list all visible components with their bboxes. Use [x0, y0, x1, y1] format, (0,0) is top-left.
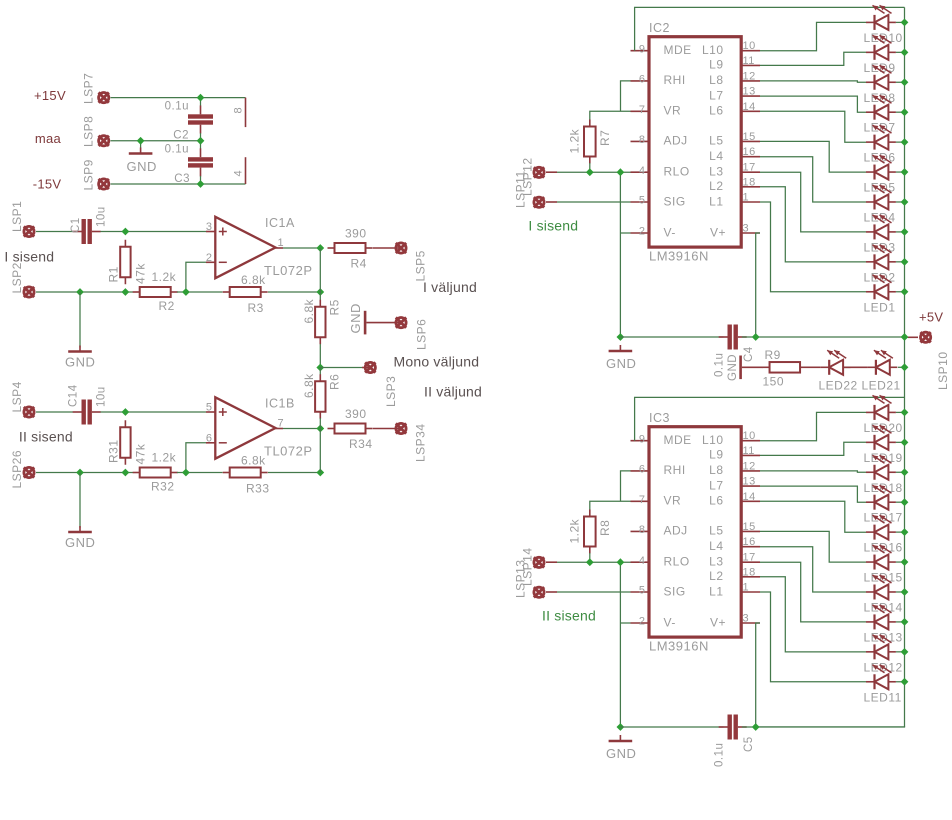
svg-text:SIG: SIG	[664, 584, 686, 598]
svg-text:Mono väljund: Mono väljund	[394, 354, 480, 370]
op-amp IC1B -input pin stub	[206, 442, 215, 444]
wire IC2 MDE to +5V bus	[635, 7, 905, 50]
wire +15V net	[111, 97, 246, 99]
capacitor C4 (0.1u)	[719, 325, 747, 350]
svg-text:IC1A: IC1A	[265, 216, 295, 230]
svg-text:II sisend: II sisend	[542, 608, 596, 624]
svg-text:GND: GND	[348, 303, 363, 333]
svg-text:LSP3: LSP3	[384, 376, 398, 407]
svg-text:GND: GND	[606, 356, 636, 371]
pad LSP14	[534, 587, 544, 597]
svg-text:LSP8: LSP8	[82, 116, 96, 147]
diode LED2	[866, 245, 896, 270]
svg-text:V-: V-	[664, 615, 676, 629]
wire R3 to out node	[268, 291, 320, 293]
junction bus LED11	[901, 678, 909, 686]
wire out2 down	[319, 429, 321, 473]
pad LSP7	[99, 92, 109, 102]
op-amp IC1A -input pin stub	[206, 261, 215, 263]
wire SIG net IC3	[557, 591, 631, 593]
svg-text:C5: C5	[743, 736, 755, 752]
IC3 pin 14 L6 stub	[741, 500, 760, 502]
junction bus LED19	[901, 438, 909, 446]
svg-text:11: 11	[743, 55, 755, 67]
junction input node 2	[122, 408, 130, 416]
svg-text:R3: R3	[248, 301, 264, 315]
svg-text:SIG: SIG	[664, 194, 686, 208]
svg-text:4: 4	[233, 170, 245, 177]
wire LED5 anode	[896, 171, 905, 173]
junction bus LED21	[901, 363, 909, 371]
wire LED15 anode	[896, 561, 905, 563]
pad LSP10	[920, 332, 930, 342]
wire IC2 L7 to LED7	[760, 96, 866, 112]
wire LED2 anode	[896, 261, 905, 263]
svg-text:8: 8	[639, 134, 646, 146]
op-amp IC1A	[215, 217, 275, 278]
svg-text:R33: R33	[246, 482, 270, 496]
wire output 1	[283, 247, 320, 249]
svg-text:LSP2: LSP2	[10, 262, 24, 293]
wire IC2 L3 to LED3	[760, 172, 866, 232]
pin LSP13 stub	[546, 561, 557, 563]
svg-text:47k: 47k	[134, 263, 148, 284]
junction GND IC2	[617, 333, 625, 341]
wire +5V row IC3	[742, 726, 905, 728]
wire R32 to R33	[177, 472, 223, 474]
svg-text:I sisend: I sisend	[528, 218, 578, 234]
svg-text:1.2k: 1.2k	[568, 518, 582, 543]
wire LED11 anode	[896, 681, 905, 683]
pad LSP3	[365, 362, 375, 372]
IC3 pin 8 ADJ stub	[631, 530, 650, 532]
svg-text:7: 7	[639, 104, 646, 116]
svg-text:LM3916N: LM3916N	[649, 249, 709, 264]
wire IC2 L5 to LED5	[760, 141, 866, 172]
wire V- stub IC3	[620, 622, 630, 624]
junction bus +5V row	[901, 333, 909, 341]
wire LED6 anode	[896, 141, 905, 143]
svg-text:LSP9: LSP9	[82, 159, 96, 190]
svg-text:LSP13: LSP13	[514, 559, 528, 598]
wire mono to R6	[319, 368, 321, 376]
diode LED11	[866, 665, 896, 689]
junction fb node a 2	[76, 469, 84, 477]
svg-text:C1: C1	[70, 217, 82, 233]
wire +5V bus	[904, 7, 906, 727]
op-amp IC1A +input pin stub	[206, 231, 215, 233]
svg-text:L8: L8	[709, 463, 723, 477]
svg-text:10u: 10u	[96, 386, 108, 407]
svg-text:13: 13	[743, 476, 756, 488]
svg-text:L5: L5	[709, 524, 723, 538]
wire IC2 VR tie	[590, 111, 631, 120]
pin LSP14 stub	[546, 591, 557, 593]
svg-text:16: 16	[743, 536, 756, 548]
svg-text:5: 5	[206, 402, 213, 414]
wire V+ down IC3	[756, 623, 760, 727]
capacitor C1 (10u)	[73, 219, 101, 244]
resistor R1 (47k)	[120, 240, 130, 285]
op-amp IC1B +input pin stub	[206, 411, 215, 413]
resistor R2 (1.2k)	[133, 287, 178, 297]
junction RLO vertical IC2	[617, 168, 625, 176]
svg-text:GND: GND	[65, 355, 95, 370]
wire R4 to LSP5	[373, 247, 401, 249]
junction output 2	[316, 425, 324, 433]
junction maa/GND	[137, 137, 145, 145]
resistor R7 (1.2k)	[584, 120, 596, 164]
wire LED16 anode	[896, 531, 905, 533]
diode LED19	[866, 425, 896, 450]
wire IC2 L1 to LED1	[760, 202, 866, 292]
wire R34 to LSP34	[373, 428, 401, 430]
diode LED10	[866, 5, 896, 30]
wire inverting input	[186, 443, 206, 473]
junction bus LED14	[901, 588, 909, 596]
svg-text:2: 2	[639, 616, 646, 628]
diode LED22	[821, 350, 851, 375]
svg-text:LED22: LED22	[819, 379, 858, 393]
pad LSP13	[534, 557, 544, 567]
svg-text:1: 1	[743, 582, 750, 594]
wire C3 top	[200, 141, 202, 149]
IC2 pin 14 L6 stub	[741, 110, 760, 112]
diode LED12	[866, 635, 896, 660]
wire LED12 anode	[896, 651, 905, 653]
svg-text:6: 6	[206, 433, 213, 445]
ground symbol GND (ch1)	[68, 346, 92, 352]
svg-text:LSP7: LSP7	[82, 73, 96, 104]
IC3 pin 4 RLO stub	[631, 561, 650, 563]
svg-text:L7: L7	[709, 478, 723, 492]
wire GND to R9	[742, 366, 763, 368]
svg-text:GND: GND	[606, 746, 636, 761]
junction feedback 1	[316, 288, 324, 296]
wire LED18 anode	[896, 471, 905, 473]
pin LSP3 stub	[362, 367, 370, 369]
pad LSP6	[396, 317, 406, 327]
svg-text:LSP34: LSP34	[414, 423, 428, 462]
svg-text:11: 11	[743, 445, 755, 457]
pad LSP26	[24, 467, 34, 477]
svg-text:17: 17	[743, 162, 756, 174]
resistor R5 (6.8k)	[315, 300, 325, 345]
junction fb node c 1	[182, 288, 190, 296]
svg-text:R31: R31	[107, 439, 121, 463]
svg-text:LSP5: LSP5	[414, 250, 428, 281]
svg-text:TL072P: TL072P	[264, 263, 313, 278]
svg-text:V-: V-	[664, 225, 676, 239]
svg-text:RLO: RLO	[664, 165, 690, 179]
wire inverting input	[186, 262, 206, 292]
IC2 pin 15 L5 stub	[741, 140, 760, 142]
svg-text:47k: 47k	[134, 443, 148, 464]
svg-text:V+: V+	[710, 615, 726, 629]
diode LED13	[866, 605, 896, 630]
diode LED21	[867, 350, 897, 375]
op-amp IC1A output pin stub	[276, 247, 284, 249]
wire R9 to LED22	[807, 366, 821, 368]
diode LED1	[866, 275, 896, 299]
svg-text:L3: L3	[709, 555, 723, 569]
op-amp IC1B	[215, 397, 275, 458]
pad LSP11	[534, 167, 544, 177]
svg-text:L10: L10	[702, 433, 724, 447]
svg-text:0.1u: 0.1u	[165, 100, 189, 112]
svg-text:1: 1	[743, 192, 750, 204]
svg-text:18: 18	[743, 566, 756, 578]
svg-text:R1: R1	[107, 266, 121, 282]
junction fb node c 2	[182, 469, 190, 477]
wire LED13 anode	[896, 621, 905, 623]
junction fb node a 1	[76, 288, 84, 296]
ground symbol GND (R9)	[739, 356, 742, 380]
svg-text:+5V: +5V	[919, 310, 943, 325]
junction bus LED17	[901, 498, 909, 506]
ground symbol GND (power)	[129, 148, 153, 154]
svg-text:L2: L2	[709, 569, 723, 583]
diode LED9	[866, 35, 896, 60]
pin LSP10 stub	[908, 336, 918, 338]
svg-text:3: 3	[743, 223, 750, 235]
svg-text:13: 13	[743, 86, 756, 98]
svg-text:L8: L8	[709, 73, 723, 87]
wire R5 to mono node	[319, 344, 321, 368]
wire LED14 anode	[896, 591, 905, 593]
IC2 pin 6 RHI stub	[631, 80, 650, 82]
IC IC3 LM3916N box	[649, 427, 741, 637]
IC3 pin 7 VR stub	[631, 500, 650, 502]
svg-text:LED21: LED21	[862, 379, 901, 393]
junction bus LED3	[901, 228, 909, 236]
diode LED15	[866, 545, 896, 570]
wire LED22 to LED21	[843, 366, 867, 368]
svg-text:II sisend: II sisend	[19, 429, 73, 445]
junction +15V/C2	[197, 94, 205, 102]
svg-text:IC1B: IC1B	[265, 397, 295, 411]
junction input node 1	[122, 228, 130, 236]
svg-text:2: 2	[206, 252, 213, 264]
svg-text:6.8k: 6.8k	[241, 273, 266, 287]
IC2 pin 7 VR stub	[631, 110, 650, 112]
wire GND row IC2	[620, 336, 723, 338]
wire maa to GND	[140, 141, 142, 148]
wire IC3 L1 to LED1	[760, 592, 866, 682]
IC2 pin 9 MDE stub	[631, 50, 650, 52]
IC3 pin 2 V- stub	[631, 622, 650, 624]
svg-text:L2: L2	[709, 179, 723, 193]
IC2 pin 13 L7 stub	[741, 95, 760, 97]
svg-text:18: 18	[743, 176, 756, 188]
junction bus LED7	[901, 108, 909, 116]
wire IC2 L10 to LED10	[760, 22, 866, 50]
wire +5V row IC2	[742, 336, 905, 338]
diode LED4	[866, 185, 896, 209]
svg-text:C2: C2	[173, 130, 189, 142]
junction bus LED10	[901, 19, 909, 27]
pad LSP2	[24, 287, 34, 297]
junction -15V/C3	[197, 180, 205, 188]
svg-text:17: 17	[743, 552, 756, 564]
wire IC2 L6 to LED6	[760, 111, 866, 142]
svg-text:LSP11: LSP11	[514, 170, 528, 208]
svg-text:1.2k: 1.2k	[152, 270, 177, 284]
svg-text:R34: R34	[349, 437, 373, 451]
svg-text:L6: L6	[709, 104, 723, 118]
wire RLO net IC3	[557, 561, 631, 563]
wire RLO to V- IC3	[619, 562, 621, 727]
svg-text:IC3: IC3	[649, 411, 670, 425]
op-amp IC1B output pin stub	[276, 428, 284, 430]
svg-text:10u: 10u	[96, 206, 108, 227]
ground symbol GND (IC2)	[609, 345, 633, 351]
IC2 pin 12 L8 stub	[741, 80, 760, 82]
junction bus LED15	[901, 558, 909, 566]
wire mono node to LSP3	[320, 367, 362, 369]
IC3 pin 15 L5 stub	[741, 530, 760, 532]
svg-text:L10: L10	[702, 43, 724, 57]
wire IC2 L9 to LED9	[760, 52, 866, 65]
svg-text:9: 9	[639, 43, 646, 55]
resistor R4 (390)	[328, 243, 373, 253]
junction bus LED6	[901, 138, 909, 146]
svg-text:maa: maa	[35, 131, 62, 146]
diode LED6	[866, 125, 896, 150]
junction fb node b 1	[122, 288, 130, 296]
svg-text:5: 5	[639, 585, 646, 597]
svg-text:15: 15	[743, 521, 756, 533]
svg-text:12: 12	[743, 460, 756, 472]
wire LED4 anode	[896, 201, 905, 203]
wire IC3 L10 to LED10	[760, 412, 866, 440]
svg-text:16: 16	[743, 146, 756, 158]
svg-text:L4: L4	[709, 149, 723, 163]
capacitor C14 (10u)	[73, 400, 101, 425]
svg-text:RLO: RLO	[664, 555, 690, 569]
junction RLO vertical IC3	[617, 558, 625, 566]
svg-text:390: 390	[345, 227, 367, 241]
svg-text:1.2k: 1.2k	[568, 128, 582, 153]
junction bus LED9	[901, 48, 909, 56]
wire LED1 anode	[896, 291, 905, 293]
wire IC3 L5 to LED5	[760, 531, 866, 562]
svg-text:10: 10	[743, 430, 756, 442]
junction bus LED5	[901, 168, 909, 176]
svg-text:LM3916N: LM3916N	[649, 639, 709, 654]
IC2 pin 18 L2 stub	[741, 186, 760, 188]
svg-text:1.2k: 1.2k	[152, 451, 177, 465]
IC3 pin 10 L10 stub	[741, 440, 760, 442]
wire IC3 RHI tie	[621, 471, 631, 501]
svg-text:R4: R4	[351, 257, 367, 271]
svg-text:LSP26: LSP26	[10, 450, 24, 489]
wire maa net	[111, 140, 201, 142]
svg-text:MDE: MDE	[664, 433, 692, 447]
wire C2 top	[200, 98, 202, 106]
svg-text:7: 7	[639, 494, 646, 506]
IC3 pin 6 RHI stub	[631, 470, 650, 472]
svg-text:+15V: +15V	[34, 88, 66, 103]
wire IC2 RHI tie	[621, 81, 631, 111]
wire R6 to out2	[319, 418, 321, 429]
IC2 pin 17 L3 stub	[741, 171, 760, 173]
resistor R3 (6.8k)	[223, 287, 268, 297]
diode LED18	[866, 455, 896, 479]
svg-text:8: 8	[233, 107, 245, 114]
svg-text:LSP6: LSP6	[415, 319, 429, 350]
wire R2 to R3	[177, 291, 223, 293]
pad LSP1	[24, 226, 34, 236]
pin LSP12 stub	[546, 201, 557, 203]
wire IC2 L8 to LED8	[760, 81, 866, 82]
svg-text:GND: GND	[65, 535, 95, 550]
svg-text:C14: C14	[68, 384, 80, 407]
resistor R31 (47k)	[120, 420, 130, 465]
svg-text:2: 2	[639, 226, 646, 238]
svg-text:150: 150	[763, 375, 785, 389]
wire GND row IC3	[620, 726, 723, 728]
wire fb2 to GND	[79, 473, 81, 529]
svg-text:L7: L7	[709, 88, 723, 102]
wire bus to LSP10	[905, 336, 909, 338]
svg-text:R32: R32	[151, 480, 175, 494]
diode LED16	[866, 515, 896, 540]
svg-text:RHI: RHI	[664, 73, 686, 87]
svg-text:R7: R7	[598, 130, 612, 146]
resistor R32 (1.2k)	[133, 468, 178, 478]
svg-text:6.8k: 6.8k	[241, 454, 266, 468]
wire IC3 MDE to +5V bus	[635, 397, 905, 440]
svg-text:ADJ: ADJ	[664, 524, 688, 538]
svg-text:6: 6	[639, 464, 646, 476]
wire IC3 L6 to LED6	[760, 501, 866, 532]
wire R33 to out node	[268, 472, 320, 474]
pad LSP9	[99, 179, 109, 189]
diode LED14	[866, 575, 896, 599]
wire IC2 L2 to LED2	[760, 187, 866, 262]
wire R8 to RLO	[589, 553, 591, 562]
junction bus LED20	[901, 409, 909, 417]
junction output 1	[316, 244, 324, 252]
svg-text:14: 14	[743, 491, 756, 503]
wire LSP4 to C14	[36, 411, 73, 413]
wire LED9 anode	[896, 51, 905, 53]
wire IC2 L4 to LED4	[760, 157, 866, 202]
svg-text:0.1u: 0.1u	[714, 743, 726, 767]
svg-text:VR: VR	[664, 494, 682, 508]
wire GND to LSP6	[366, 322, 401, 324]
IC IC2 LM3916N box	[649, 37, 741, 247]
IC2 pin 4 RLO stub	[631, 171, 650, 173]
capacitor C2	[188, 106, 213, 134]
wire RLO net IC2	[557, 171, 631, 173]
svg-text:0.1u: 0.1u	[714, 353, 726, 377]
pad LSP34	[396, 423, 406, 433]
junction feedback 2	[316, 469, 324, 477]
svg-text:L5: L5	[709, 134, 723, 148]
svg-text:10: 10	[743, 40, 756, 52]
wire -15V net	[111, 183, 246, 185]
svg-text:12: 12	[743, 70, 756, 82]
wire IC3 L3 to LED3	[760, 562, 866, 622]
wire LED8 anode	[896, 81, 905, 83]
svg-text:9: 9	[639, 433, 646, 445]
IC2 pin 8 ADJ stub	[631, 140, 650, 142]
IC3 pin 16 L4 stub	[741, 546, 760, 548]
svg-text:V+: V+	[710, 225, 726, 239]
pad LSP12	[534, 197, 544, 207]
